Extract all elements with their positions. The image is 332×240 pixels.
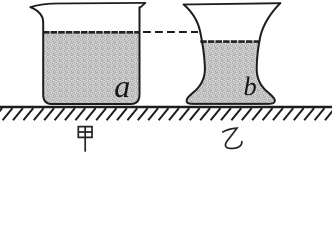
svg-text:b: b — [244, 71, 257, 101]
svg-text:a: a — [114, 68, 130, 104]
